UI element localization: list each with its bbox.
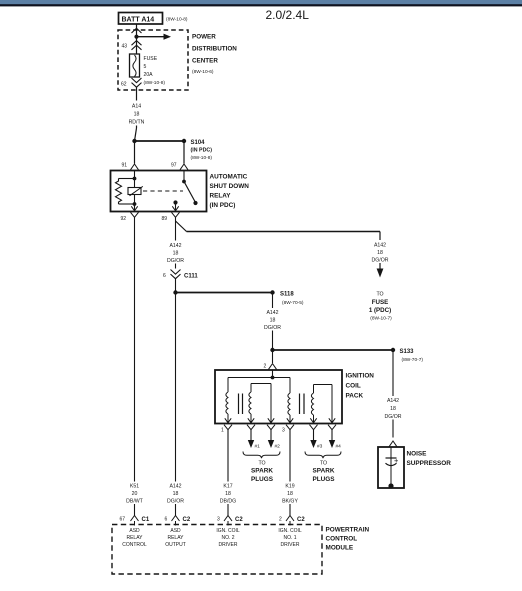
svg-text:(8W-10-6): (8W-10-6): [192, 69, 214, 75]
PCM pin 6 C2: [165, 509, 191, 526]
noise suppressor pin connector: [389, 441, 397, 447]
powertrain control module box: [112, 525, 370, 575]
svg-text:6: 6: [165, 517, 168, 523]
svg-text:18: 18: [173, 491, 179, 497]
svg-text:(8W-10-8): (8W-10-8): [191, 155, 213, 161]
pin 3 connector: [282, 425, 294, 434]
pin 97 connector: [171, 163, 188, 170]
wire label A142 18 DG/OR (PCM run): [167, 482, 185, 505]
svg-text:43: 43: [122, 44, 128, 50]
svg-text:BATT A14: BATT A14: [122, 17, 155, 24]
svg-text:S133: S133: [400, 349, 415, 355]
svg-text:ASD: ASD: [170, 528, 181, 534]
connector chevron at PDC entry: [132, 28, 142, 33]
svg-text:K19: K19: [285, 484, 294, 490]
svg-text:NOISE: NOISE: [407, 451, 428, 458]
svg-text:FUSE: FUSE: [144, 56, 158, 62]
svg-text:SPARK: SPARK: [251, 468, 273, 475]
spark plug lead #4: [329, 430, 341, 450]
svg-text:DG/OR: DG/OR: [264, 325, 281, 331]
PCM pin 2 C2: [279, 509, 305, 526]
svg-text:CENTER: CENTER: [192, 58, 218, 65]
automatic shut down relay box: [111, 171, 250, 212]
connector 62: [121, 78, 142, 88]
svg-text:C2: C2: [235, 517, 243, 523]
wire K51 ASD relay control (left long run): [134, 222, 136, 509]
svg-text:18: 18: [390, 406, 396, 412]
svg-text:PLUGS: PLUGS: [312, 476, 335, 483]
svg-text:TO: TO: [376, 292, 383, 298]
svg-text:2: 2: [279, 517, 282, 523]
svg-text:SPARK: SPARK: [313, 468, 335, 475]
coil 2 core: [300, 394, 305, 415]
svg-text:C2: C2: [297, 517, 305, 523]
svg-text:ASD: ASD: [129, 528, 140, 534]
spark tower connector: [267, 425, 275, 430]
svg-text:DB/DG: DB/DG: [220, 499, 236, 505]
svg-text:92: 92: [121, 216, 127, 222]
to spark plugs label left: [251, 461, 274, 484]
top banner: [0, 0, 522, 6]
coil pack pin arrowheads: [225, 418, 335, 423]
svg-text:(8W-10-7): (8W-10-7): [370, 316, 392, 322]
coil 1 primary winding: [226, 378, 228, 424]
wire K17 (coil driver 2 long run): [227, 430, 229, 509]
ignition coil pack box: [215, 370, 374, 424]
relay pin arrowheads: [131, 206, 178, 211]
svg-text:(8W-10-8): (8W-10-8): [144, 80, 166, 86]
svg-text:BK/GY: BK/GY: [282, 499, 298, 505]
connector 43: [122, 41, 142, 50]
splice S118: [173, 290, 304, 306]
wire from BATT A14 into PDC: [136, 24, 138, 37]
capacitor C (noise suppressor): [386, 447, 400, 489]
svg-text:(8W-70-5): (8W-70-5): [282, 300, 304, 306]
spark plug lead #3: [310, 430, 322, 450]
svg-text:A142: A142: [169, 243, 181, 249]
wire A142 continues: [175, 279, 177, 509]
svg-text:DG/OR: DG/OR: [384, 414, 401, 420]
svg-text:18: 18: [173, 251, 179, 257]
wire S118 to S133 junction: [272, 293, 274, 351]
PCM function asd relay output: [165, 528, 186, 548]
splice S104: [132, 139, 212, 161]
pin 92 connector: [121, 212, 139, 222]
svg-text:CONTROL: CONTROL: [326, 536, 358, 543]
wire label A14 18 RD/TN: [127, 101, 146, 126]
svg-text:SHUT DOWN: SHUT DOWN: [210, 183, 250, 190]
svg-text:67: 67: [120, 517, 126, 523]
wire label A142 18 DG/OR (S118 run): [264, 308, 281, 331]
svg-text:18: 18: [287, 491, 293, 497]
svg-text:3: 3: [282, 428, 285, 434]
svg-text:A142: A142: [169, 484, 181, 490]
svg-text:S104: S104: [191, 140, 206, 146]
svg-text:18: 18: [270, 318, 276, 324]
relay coil core symbol: [128, 179, 143, 212]
relay switch: [182, 171, 197, 206]
spark tower connector: [310, 425, 318, 430]
spark tower connector: [247, 425, 255, 430]
svg-text:#4: #4: [336, 444, 342, 450]
svg-text:PLUGS: PLUGS: [251, 476, 274, 483]
to fuse 1 label: [369, 292, 392, 322]
svg-text:POWERTRAIN: POWERTRAIN: [326, 527, 370, 534]
wire A14: [136, 87, 138, 128]
spark tower connector: [328, 425, 336, 430]
svg-text:DG/OR: DG/OR: [167, 499, 184, 505]
coil pack feed bus: [228, 370, 290, 379]
svg-text:RELAY: RELAY: [167, 535, 184, 541]
wire from pin 89 down: [175, 222, 177, 269]
svg-text:RELAY: RELAY: [126, 535, 143, 541]
PCM function asd relay control: [122, 528, 147, 548]
relay output contact pin 89 stub: [173, 200, 177, 211]
svg-text:2: 2: [264, 364, 267, 370]
PCM function ign coil no 2 driver: [216, 528, 240, 548]
svg-text:DISTRIBUTION: DISTRIBUTION: [192, 46, 237, 53]
svg-text:DRIVER: DRIVER: [219, 542, 238, 548]
svg-text:18: 18: [134, 112, 140, 118]
coil 1 core: [239, 394, 243, 415]
svg-text:K51: K51: [130, 484, 139, 490]
svg-text:NO. 1: NO. 1: [283, 535, 296, 541]
pin 89 connector: [162, 212, 180, 222]
connector C111: [163, 270, 198, 280]
svg-text:SUPPRESSOR: SUPPRESSOR: [407, 460, 452, 467]
svg-text:C1: C1: [142, 517, 150, 523]
svg-text:1: 1: [221, 428, 224, 434]
svg-text:#2: #2: [275, 444, 281, 450]
wire label A142 18 DG/OR (S133 run): [384, 396, 401, 420]
svg-text:18: 18: [225, 491, 231, 497]
brace left spark group: [243, 452, 280, 459]
svg-text:3: 3: [217, 517, 220, 523]
svg-text:POWER: POWER: [192, 34, 216, 41]
wire to relay pin 91: [134, 141, 136, 164]
wire to relay pin 97: [183, 141, 185, 164]
pin 91 connector: [122, 163, 139, 170]
svg-text:COIL: COIL: [346, 383, 361, 390]
svg-text:TO: TO: [320, 461, 327, 467]
node with feed arrow: [134, 34, 171, 40]
coil 1 secondary winding: [249, 384, 271, 424]
svg-text:5: 5: [144, 64, 147, 70]
svg-text:(8W-10-8): (8W-10-8): [166, 17, 188, 23]
spark plug lead #2: [268, 430, 280, 450]
coil 2 primary winding: [288, 378, 290, 424]
PCM pin 3 C2: [217, 509, 243, 526]
svg-text:A142: A142: [387, 398, 399, 404]
svg-text:A142: A142: [266, 310, 278, 316]
svg-text:1 (PDC): 1 (PDC): [369, 307, 391, 314]
relay coil branch: [119, 171, 137, 181]
svg-text:(IN PDC): (IN PDC): [191, 148, 213, 154]
wire label A142 18 DG/OR (pin 89 run): [167, 241, 184, 265]
svg-text:PACK: PACK: [346, 393, 364, 400]
svg-text:C111: C111: [184, 274, 198, 280]
svg-text:AUTOMATIC: AUTOMATIC: [210, 174, 248, 181]
battery feed box BATT A14: [119, 13, 163, 25]
wire K19 (coil driver 1 long run): [289, 430, 291, 509]
brace right spark group: [305, 452, 341, 459]
power distribution center box: [118, 30, 237, 90]
to fuse 1 arrow: [377, 269, 384, 278]
wire branch to fuse 1: [176, 221, 381, 269]
coil 2 secondary winding: [311, 385, 332, 424]
svg-text:18: 18: [377, 250, 383, 256]
svg-text:20A: 20A: [144, 72, 154, 78]
svg-text:(8W-70-7): (8W-70-7): [402, 357, 424, 363]
splice S133: [270, 348, 423, 363]
wire label K17 18 DB/DG: [219, 482, 237, 505]
svg-text:#3: #3: [317, 444, 323, 450]
svg-text:20: 20: [132, 491, 138, 497]
svg-text:2.0/2.4L: 2.0/2.4L: [266, 8, 310, 22]
spark plug lead #1: [248, 430, 260, 450]
svg-text:91: 91: [122, 163, 128, 169]
svg-text:IGN. COIL: IGN. COIL: [216, 528, 240, 534]
svg-text:DB/WT: DB/WT: [126, 499, 144, 505]
svg-text:DG/OR: DG/OR: [167, 258, 184, 264]
pin 1 connector: [221, 425, 232, 434]
svg-text:CONTROL: CONTROL: [122, 542, 147, 548]
wire label K19 18 BK/GY: [281, 482, 299, 505]
noise suppressor box: [378, 447, 451, 488]
svg-text:A142: A142: [374, 243, 386, 249]
svg-text:NO. 2: NO. 2: [221, 535, 234, 541]
svg-text:FUSE: FUSE: [372, 299, 389, 306]
svg-text:IGNITION: IGNITION: [346, 373, 375, 380]
svg-text:97: 97: [171, 163, 177, 169]
svg-text:62: 62: [121, 82, 127, 88]
svg-text:RELAY: RELAY: [210, 193, 232, 200]
svg-text:DG/OR: DG/OR: [371, 258, 388, 264]
wire to coil pack pin 2: [272, 350, 274, 363]
svg-text:6: 6: [163, 273, 166, 279]
wire: [136, 37, 138, 54]
svg-text:OUTPUT: OUTPUT: [165, 542, 186, 548]
fuse 5 20A: [130, 54, 166, 86]
PCM function ign coil no 1 driver: [278, 528, 302, 548]
svg-text:A14: A14: [132, 104, 141, 110]
svg-text:IGN. COIL: IGN. COIL: [278, 528, 302, 534]
wire label A142 18 DG/OR (right branch): [371, 240, 388, 264]
svg-text:89: 89: [162, 216, 168, 222]
wire label K51 20 DB/WT: [126, 482, 144, 505]
svg-text:C2: C2: [183, 517, 191, 523]
pin 2 connector: [264, 364, 277, 370]
svg-text:(IN PDC): (IN PDC): [210, 202, 236, 209]
svg-text:#1: #1: [255, 444, 261, 450]
wire: [119, 203, 135, 205]
svg-text:MODULE: MODULE: [326, 545, 354, 552]
PCM pin 67 C1: [120, 509, 150, 526]
svg-text:S118: S118: [280, 292, 294, 298]
relay actuator dashed link: [143, 190, 183, 192]
wire S133 to noise suppressor: [392, 350, 394, 438]
svg-text:DRIVER: DRIVER: [281, 542, 300, 548]
svg-text:RD/TN: RD/TN: [129, 120, 145, 126]
relay coil resistor: [116, 179, 122, 205]
to spark plugs label right: [312, 461, 335, 484]
svg-text:TO: TO: [258, 461, 265, 467]
svg-text:K17: K17: [223, 484, 232, 490]
